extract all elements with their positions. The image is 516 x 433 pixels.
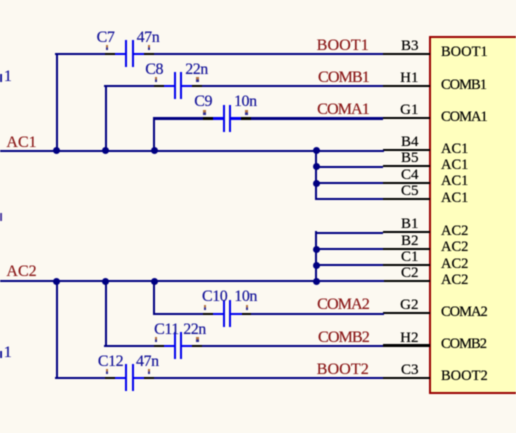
pin C1 of IC (AC2) bbox=[383, 264, 430, 266]
pin name COMA2 bbox=[441, 305, 487, 320]
capacitor C10 (10n) bbox=[0, 0, 516, 1]
pin name AC2 bbox=[441, 273, 468, 288]
wire AC1 net horizontal bbox=[0, 150, 384, 152]
pin name AC2 bbox=[441, 257, 468, 272]
wire BOOT2 row left segment bbox=[55, 377, 105, 379]
pin number B3 bbox=[401, 39, 419, 54]
pin B1 of IC (AC2) bbox=[383, 231, 430, 233]
value label 22n of C8 bbox=[185, 62, 208, 78]
wire AC1 pin bus vertical bbox=[315, 150, 317, 200]
pin name AC1 bbox=[441, 158, 468, 173]
capacitor C12 (47n) bbox=[0, 0, 516, 1]
pin name AC1 bbox=[441, 142, 468, 157]
pin C3 of IC (BOOT2) bbox=[383, 377, 430, 379]
designator label C11 bbox=[154, 322, 179, 338]
capacitor C11 (22n) bbox=[0, 0, 516, 1]
pin name COMA1 bbox=[441, 110, 487, 125]
wire riser AC1 to COMA1 row bbox=[153, 117, 155, 150]
wire branch to pin B1 bbox=[315, 232, 384, 234]
pin C5 of IC (AC1) bbox=[383, 198, 430, 200]
value label 10n of C10 bbox=[234, 289, 257, 305]
pin number B4 bbox=[401, 135, 419, 150]
wire COMB2 row right segment bbox=[202, 345, 384, 347]
pin name COMB2 bbox=[441, 337, 486, 352]
pin number C4 bbox=[401, 168, 419, 183]
clipped designator 1 (bottom left) bbox=[4, 345, 12, 361]
net label COMB1 bbox=[318, 69, 369, 85]
wire riser AC2 to COMA2 row bbox=[153, 281, 155, 314]
wire branch to pin C5 bbox=[315, 198, 384, 200]
pin name AC1 bbox=[441, 191, 468, 206]
wire riser AC2 to COMB2 row bbox=[105, 281, 107, 347]
pin number C2 bbox=[401, 266, 419, 281]
pin name BOOT2 bbox=[441, 369, 488, 384]
value label 47n of C7 bbox=[137, 30, 160, 46]
wire riser AC1 to COMB1 row bbox=[105, 85, 107, 151]
wire BOOT1 row right segment bbox=[153, 53, 383, 55]
wire COMA2 row left segment bbox=[153, 313, 204, 315]
pin C2 of IC (AC2) bbox=[383, 280, 430, 282]
wire riser AC2 to BOOT2 row bbox=[56, 281, 58, 379]
clipped net label fragment A (left middle) bbox=[0, 213, 2, 222]
junction AC2/riser3 bbox=[151, 278, 158, 285]
value label 22n of C11 bbox=[183, 322, 206, 338]
designator label C7 bbox=[97, 30, 115, 46]
IC U? yellow part body bbox=[429, 36, 516, 393]
clipped designator fragment (top left) bbox=[0, 74, 2, 83]
wire COMB2 row left segment bbox=[104, 345, 154, 347]
wire BOOT2 row right segment bbox=[153, 377, 383, 379]
net label AC1 bbox=[6, 135, 36, 151]
junction AC2/riser1 bbox=[53, 278, 60, 285]
pin name COMB1 bbox=[441, 78, 486, 93]
net label COMA2 bbox=[317, 296, 369, 312]
wire AC2 pin bus vertical bbox=[315, 231, 317, 281]
junction AC1/riser1 bbox=[53, 147, 60, 154]
value label 47n of C12 bbox=[136, 354, 159, 370]
net label BOOT1 bbox=[317, 37, 369, 53]
pin number G1 bbox=[400, 103, 418, 118]
pin B2 of IC (AC2) bbox=[383, 248, 430, 250]
pin G1 of IC (COMA1) bbox=[383, 117, 430, 119]
wire COMB1 row left segment bbox=[104, 85, 154, 87]
junction AC1/riser2 bbox=[102, 147, 109, 154]
capacitor C9 (10n) bbox=[0, 0, 516, 1]
pin name BOOT1 bbox=[441, 45, 488, 60]
net label BOOT2 bbox=[317, 361, 369, 377]
pin G2 of IC (COMA2) bbox=[383, 312, 430, 314]
designator label C9 bbox=[194, 94, 212, 110]
pin B4 of IC (AC1) bbox=[383, 149, 430, 151]
pin number G2 bbox=[400, 298, 418, 313]
junction AC1/riser3 bbox=[151, 147, 158, 154]
pin name AC1 bbox=[441, 174, 468, 189]
wire BOOT1 row left segment bbox=[55, 53, 105, 55]
designator label C10 bbox=[202, 289, 227, 305]
wire branch to pin B5 bbox=[315, 166, 384, 168]
pin number B5 bbox=[401, 151, 419, 166]
capacitor C8 (22n) bbox=[0, 0, 516, 1]
junction AC1/bus bbox=[313, 147, 320, 154]
designator label C12 bbox=[98, 354, 123, 370]
pin number B2 bbox=[401, 234, 419, 249]
pin number H1 bbox=[400, 71, 418, 86]
junction AC2/bus bbox=[313, 278, 320, 285]
pin C4 of IC (AC1) bbox=[383, 182, 430, 184]
junction bus/C1 branch bbox=[313, 262, 320, 269]
pin number C5 bbox=[401, 184, 419, 199]
junction bus/B5 branch bbox=[313, 163, 320, 170]
pin H2 of IC (COMB2) bbox=[383, 344, 430, 346]
clipped designator 1 (top left) bbox=[4, 69, 12, 85]
designator label C8 bbox=[145, 62, 163, 78]
junction bus/C4 branch bbox=[313, 180, 320, 187]
pin name AC2 bbox=[441, 240, 468, 255]
net label COMA1 bbox=[317, 101, 369, 117]
wire branch to pin B2 bbox=[315, 248, 384, 250]
net label AC2 bbox=[6, 264, 36, 280]
clipped designator fragment (bottom left) bbox=[0, 351, 2, 358]
pin number B1 bbox=[401, 217, 419, 232]
wire AC2 net horizontal bbox=[0, 280, 384, 282]
junction bus/B2 branch bbox=[313, 246, 320, 253]
junction AC2/riser2 bbox=[102, 278, 109, 285]
pin number C3 bbox=[401, 363, 419, 378]
pin name AC2 bbox=[441, 224, 468, 239]
pin B5 of IC (AC1) bbox=[383, 165, 430, 167]
wire COMB1 row right segment bbox=[202, 85, 384, 87]
pin number H2 bbox=[400, 331, 418, 346]
pin H1 of IC (COMB1) bbox=[383, 85, 430, 87]
wire branch to pin C4 bbox=[315, 182, 384, 184]
wire branch to pin C1 bbox=[315, 264, 384, 266]
pin number C1 bbox=[401, 250, 419, 265]
net label COMB2 bbox=[318, 329, 369, 345]
wire COMA1 row right segment bbox=[251, 117, 384, 119]
wire COMA2 row right segment bbox=[251, 313, 384, 315]
value label 10n of C9 bbox=[234, 94, 257, 110]
capacitor C7 (47n) bbox=[0, 0, 516, 1]
pin B3 of IC (BOOT1) bbox=[383, 53, 430, 55]
wire riser AC1 to BOOT1 row bbox=[56, 53, 58, 151]
wire COMA1 row left segment bbox=[153, 117, 203, 119]
